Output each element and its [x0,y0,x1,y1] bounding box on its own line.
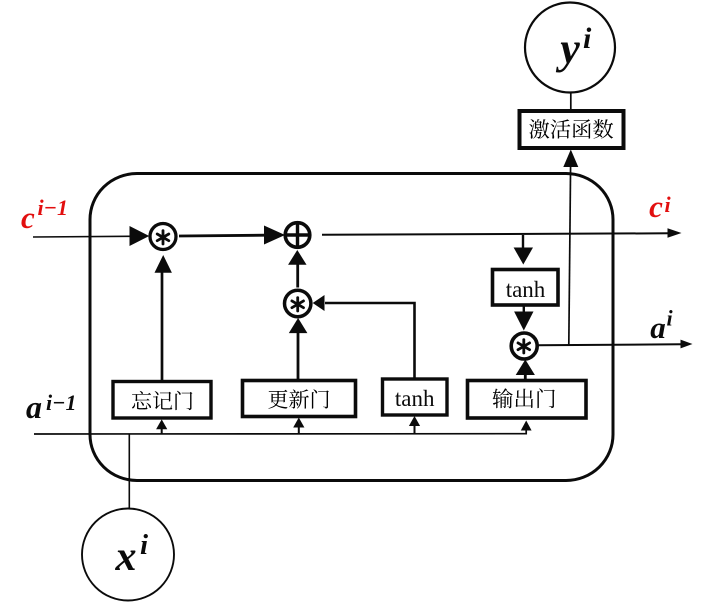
wire c-line down to tanh box with arrowhead [514,235,533,265]
multiply node M1 (circle with asterisk, forget product) [150,224,176,250]
wire x^i circle up to a-line [128,434,130,509]
multiply node M3 (circle with asterisk, output product) [511,333,537,359]
svg-text:a: a [26,389,42,425]
activation function box 激活函数 [520,111,624,148]
wire output gate up to M3 with arrowhead [516,360,535,381]
output gate box 输出门 [468,381,587,419]
label a^{i-1} [26,389,76,425]
arrowhead a-line into tanh left box [409,416,420,434]
svg-text:c: c [21,200,35,235]
tanh box right (output branch) [493,270,559,306]
svg-text:i: i [665,192,672,217]
wire a-junction up to activation box with arrowhead [563,150,578,346]
arrowhead a-line into update gate [293,418,304,434]
wire M2 up to add node with arrowhead [288,250,307,288]
wire tanh left up and into M2 with arrowhead [313,295,415,379]
svg-text:i: i [583,22,592,55]
tanh box left (candidate branch) [383,379,448,415]
LSTM cell body rounded rectangle [90,174,613,481]
svg-text:tanh: tanh [506,277,546,302]
wire y^i circle to activation box [570,93,572,112]
add node (circle with plus) [285,223,310,248]
svg-text:a: a [650,310,666,345]
wire update gate up to multiply node M2 with arrowhead [289,318,308,381]
update gate box 更新门 [243,381,356,417]
wire a^{i-1} input line across cell bottom [34,430,526,435]
multiply node M2 (circle with asterisk, update product) [285,290,311,316]
arrowhead a-line into output gate [521,421,532,431]
wire c-line input segment with arrowhead into multiply node M1 [33,226,149,246]
svg-text:tanh: tanh [395,386,435,411]
node y^i output circle [525,3,615,93]
svg-text:i: i [140,529,148,561]
wire forget gate up to M1 with arrowhead [155,255,172,381]
wire c-line output segment to c^i arrowhead [322,228,682,238]
forget gate box 忘记门 [113,382,211,419]
wire a^i output line with arrowhead [537,340,693,349]
label a^i [650,306,673,346]
wire tanh down to multiply node M3 with arrowhead [514,305,533,331]
svg-text:i−1: i−1 [38,195,68,220]
node x^i input circle [82,509,174,601]
label c^i red [649,189,671,224]
svg-text:c: c [649,189,663,224]
svg-text:i: i [667,306,674,331]
svg-text:x: x [115,534,137,580]
label c^{i-1} red [21,195,68,235]
svg-text:i−1: i−1 [46,390,76,415]
wire M1 to add node with arrowhead [179,226,285,245]
arrowhead a-line into forget gate [156,419,167,433]
